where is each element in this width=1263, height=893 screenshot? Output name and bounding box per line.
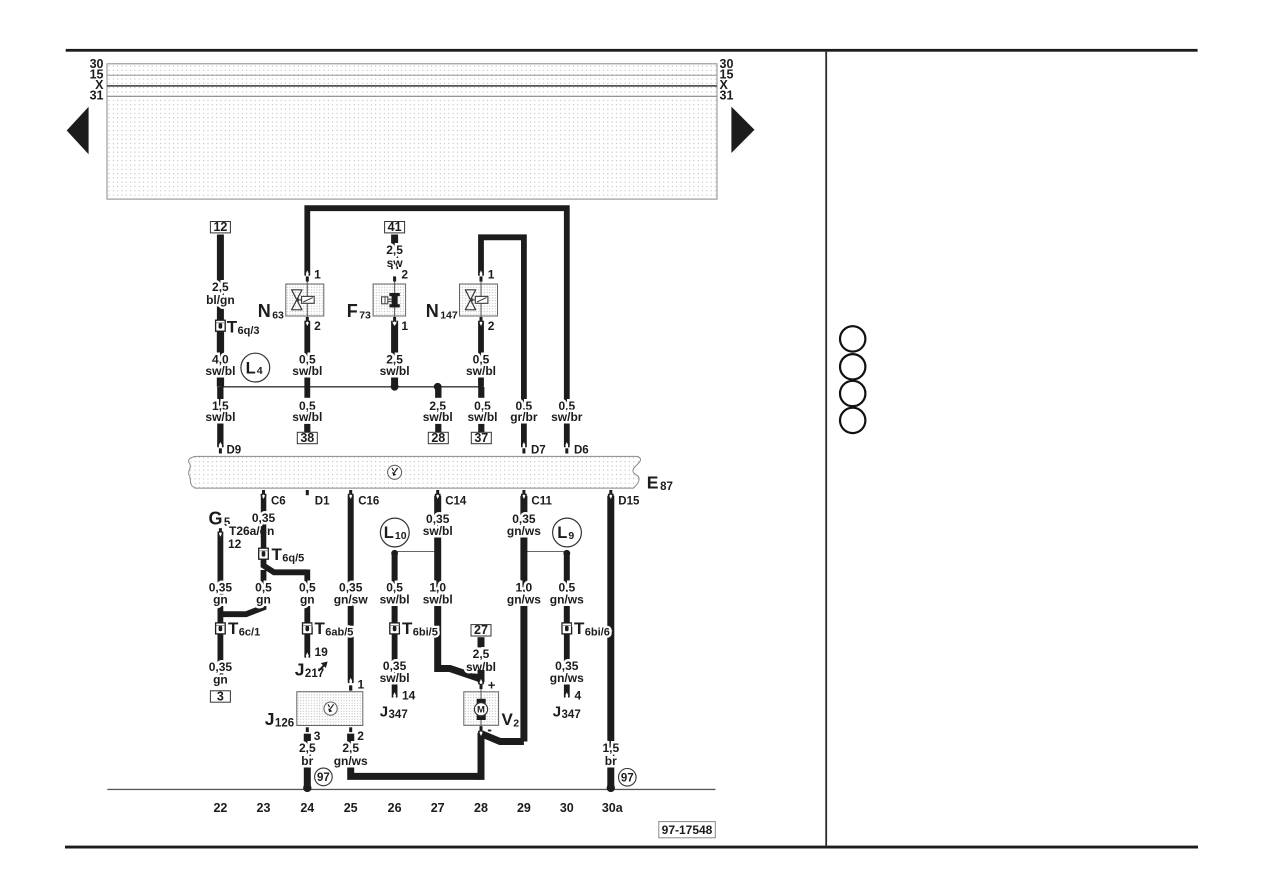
svg-text:sw/bl: sw/bl: [292, 364, 322, 378]
svg-text:2,5: 2,5: [473, 647, 490, 661]
svg-text:sw/br: sw/br: [551, 410, 583, 424]
svg-text:19: 19: [315, 645, 329, 659]
svg-text:31: 31: [720, 89, 734, 103]
svg-text:30: 30: [560, 801, 574, 815]
svg-text:27: 27: [431, 801, 445, 815]
svg-text:gn: gn: [213, 673, 228, 687]
svg-text:gn: gn: [213, 593, 228, 607]
svg-text:27: 27: [474, 623, 488, 637]
svg-text:D7: D7: [531, 444, 546, 456]
svg-text:gn/sw: gn/sw: [334, 593, 369, 607]
svg-text:gn: gn: [256, 593, 271, 607]
svg-text:97: 97: [621, 773, 634, 785]
svg-text:97: 97: [317, 772, 330, 784]
svg-text:0,35: 0,35: [252, 511, 276, 525]
svg-text:+: +: [488, 678, 496, 693]
svg-text:1,5: 1,5: [602, 741, 619, 755]
svg-text:D9: D9: [227, 444, 242, 456]
svg-text:12: 12: [228, 537, 242, 551]
svg-text:gn/ws: gn/ws: [334, 754, 368, 768]
svg-text:1: 1: [488, 268, 495, 282]
svg-text:C11: C11: [531, 495, 552, 507]
svg-text:24: 24: [300, 801, 314, 815]
svg-text:4: 4: [575, 689, 582, 703]
svg-text:gn: gn: [300, 593, 315, 607]
svg-text:sw/bl: sw/bl: [467, 410, 497, 424]
svg-text:gr/br: gr/br: [510, 410, 538, 424]
svg-text:sw/bl: sw/bl: [205, 410, 235, 424]
svg-text:sw/bl: sw/bl: [292, 410, 322, 424]
svg-text:gn/ws: gn/ws: [550, 671, 584, 685]
svg-text:38: 38: [300, 431, 314, 445]
svg-text:bl/gn: bl/gn: [206, 293, 235, 307]
svg-text:3: 3: [217, 689, 224, 703]
svg-text:D6: D6: [574, 444, 589, 456]
svg-text:sw/bl: sw/bl: [423, 593, 453, 607]
svg-text:2: 2: [314, 319, 321, 333]
svg-text:2,5: 2,5: [342, 741, 359, 755]
svg-text:25: 25: [344, 801, 358, 815]
svg-text:1: 1: [358, 677, 365, 691]
svg-text:D1: D1: [315, 495, 330, 507]
svg-text:1: 1: [401, 319, 408, 333]
svg-text:12: 12: [213, 220, 227, 234]
svg-text:gn/ws: gn/ws: [550, 593, 584, 607]
svg-text:30a: 30a: [602, 801, 624, 815]
svg-text:sw/bl: sw/bl: [380, 671, 410, 685]
svg-text:C6: C6: [271, 495, 286, 507]
svg-text:sw/bl: sw/bl: [380, 364, 410, 378]
svg-text:23: 23: [257, 801, 271, 815]
svg-text:C14: C14: [445, 495, 467, 507]
svg-text:D15: D15: [618, 495, 640, 507]
svg-text:sw/bl: sw/bl: [423, 410, 453, 424]
svg-text:sw/bl: sw/bl: [466, 364, 496, 378]
svg-text:2,5: 2,5: [212, 280, 229, 294]
svg-text:29: 29: [517, 801, 531, 815]
svg-text:41: 41: [388, 220, 402, 234]
svg-text:M: M: [477, 705, 485, 716]
svg-text:31: 31: [90, 89, 104, 103]
svg-text:sw/bl: sw/bl: [380, 593, 410, 607]
svg-text:2,5: 2,5: [386, 243, 403, 257]
svg-text:1: 1: [314, 268, 321, 282]
svg-text:28: 28: [474, 801, 488, 815]
svg-text:14: 14: [402, 689, 416, 703]
svg-text:br: br: [605, 754, 617, 768]
svg-text:2: 2: [488, 319, 495, 333]
svg-text:sw/bl: sw/bl: [205, 364, 235, 378]
svg-text:2,5: 2,5: [299, 741, 316, 755]
svg-text:97-17548: 97-17548: [662, 823, 713, 837]
svg-text:sw/bl: sw/bl: [423, 524, 453, 538]
svg-text:37: 37: [474, 431, 488, 445]
svg-text:C16: C16: [358, 495, 379, 507]
svg-text:28: 28: [431, 431, 445, 445]
svg-text:T26a/gn: T26a/gn: [229, 524, 274, 538]
svg-text:2: 2: [401, 268, 408, 282]
svg-text:gn/ws: gn/ws: [507, 524, 541, 538]
svg-text:22: 22: [213, 801, 227, 815]
svg-text:26: 26: [388, 801, 402, 815]
svg-text:br: br: [301, 754, 313, 768]
svg-text:gn/ws: gn/ws: [507, 593, 541, 607]
